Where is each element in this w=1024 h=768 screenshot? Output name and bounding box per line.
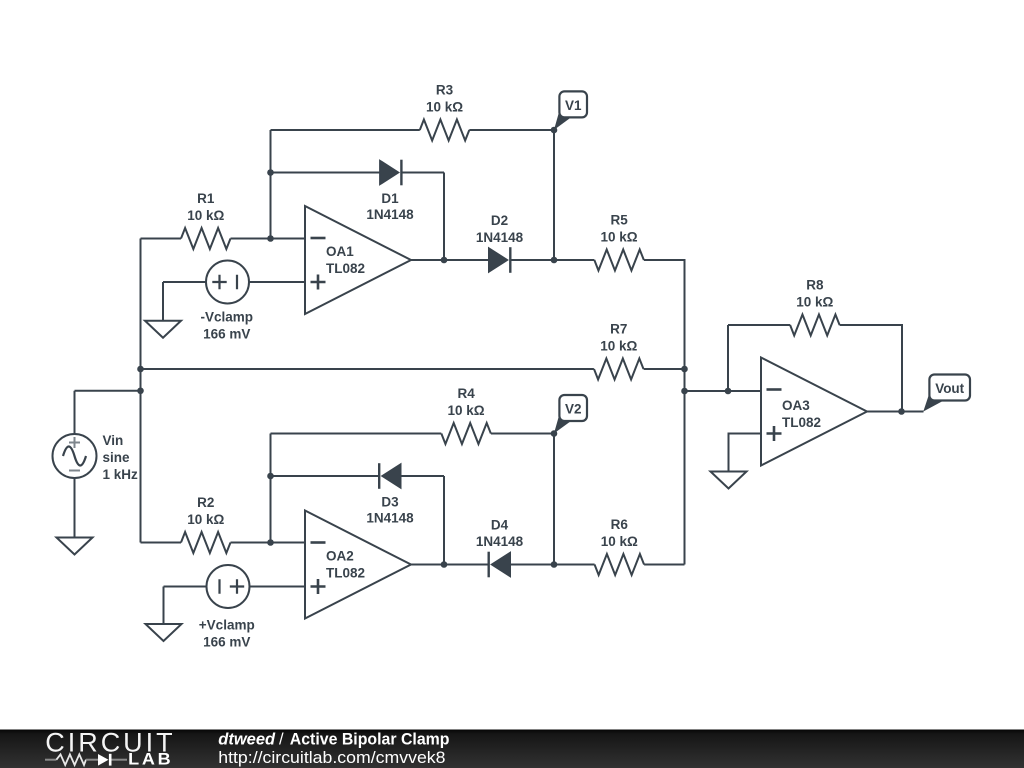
wire D3 anode down to OA2 output [443,476,445,565]
wire R8 left vertical [727,325,729,391]
ground Vin [57,538,93,555]
resistor R5 [594,250,644,271]
resistor R6 [595,554,645,575]
wire OA2 output row [411,564,489,566]
svg-text:R4: R4 [457,386,475,401]
node D3 cathode junction [267,473,274,480]
svg-text:D3: D3 [381,495,399,510]
voltage source Vin stem top [74,391,76,434]
ground OA3 [711,472,747,489]
label -Vclamp 166 mV [200,310,253,342]
label OA3 TL082 [782,398,821,430]
wire D2 cathode to R5 [510,259,594,261]
wire feedback bus vertical x270 (top) [270,130,272,239]
wire -Vclamp to OA1 non-inverting input [249,281,305,283]
svg-text:Vout: Vout [935,381,964,396]
wire D1 cathode lead [401,172,444,174]
footer bar [0,730,1024,768]
svg-text:R1: R1 [197,191,215,206]
svg-text:10 kΩ: 10 kΩ [601,230,638,245]
node D2 / V1 tap junction [551,257,558,264]
svg-text:D1: D1 [381,191,399,206]
node V1 junction [551,127,558,134]
svg-text:/: / [279,730,284,748]
wire +Vclamp left lead [164,586,207,588]
node V2 junction [551,430,558,437]
op-amp OA2 inverting input mark [311,541,326,544]
label D2 1N4148 [476,213,524,245]
resistor R7 [594,359,644,380]
logo resistor-diode squiggle [45,754,127,766]
svg-text:R7: R7 [610,322,627,337]
wire R4 right lead to node V2 [491,433,554,435]
label R2 10 kOhm [187,495,224,527]
node D1 anode junction [267,169,274,176]
svg-text:R5: R5 [610,213,628,228]
svg-text:10 kΩ: 10 kΩ [600,339,637,354]
label R1 10 kOhm [187,191,224,223]
label OA2 TL082 [326,549,365,581]
node OA2 output / D3 feedback junction [441,561,448,568]
label R8 10 kOhm [796,278,833,310]
label R7 10 kOhm [600,322,637,354]
svg-text:1N4148: 1N4148 [366,511,414,526]
diode D4 1N4148 [489,552,511,578]
voltage source Vin sine 1 kHz [53,434,97,478]
label R4 10 kOhm [448,386,485,418]
wire summing bus to OA3 inverting input [685,390,762,392]
wire R1 to OA1 inverting input [231,238,306,240]
wire OA3 non-inverting input to ground [729,434,762,472]
svg-text:Vin: Vin [103,433,124,448]
wire OA1 output row [411,259,489,261]
wire D3 cathode lead (left side) [271,475,380,477]
svg-text:1N4148: 1N4148 [366,207,414,222]
svg-text:LAB: LAB [128,751,173,768]
wire node V1 down to D2 output row [553,130,555,260]
resistor R3 [420,120,470,141]
label R6 10 kOhm [601,517,638,549]
label +Vclamp 166 mV [199,618,255,650]
svg-text:OA2: OA2 [326,549,354,564]
node OA3 output / R8 junction [898,408,905,415]
wire R3 left lead [271,129,420,131]
svg-text:10 kΩ: 10 kΩ [187,512,224,527]
svg-text:sine: sine [103,450,131,465]
label R3 10 kOhm [426,83,463,115]
svg-text:166 mV: 166 mV [203,327,250,342]
diode D2 1N4148 [489,247,511,273]
node OA1 inverting input junction [267,235,274,242]
flag Vout [923,390,945,412]
label R5 10 kOhm [601,213,638,245]
svg-text:R6: R6 [611,517,629,532]
svg-text:V1: V1 [565,98,582,113]
node left bus / R7 junction [137,366,144,373]
wire R7 right lead [644,368,685,370]
svg-text:OA3: OA3 [782,398,810,413]
resistor R4 [441,423,491,444]
label OA1 TL082 [326,244,365,276]
svg-text:10 kΩ: 10 kΩ [601,534,638,549]
op-amp OA2 non-inverting input mark [311,579,326,594]
node R7 / summing bus junction [681,366,688,373]
svg-text:D2: D2 [491,213,508,228]
resistor R8 [790,315,840,336]
wire OA3 output [867,411,924,413]
svg-text:10 kΩ: 10 kΩ [796,295,833,310]
svg-text:R3: R3 [436,83,454,98]
svg-text:1N4148: 1N4148 [476,534,524,549]
svg-text:http://circuitlab.com/cmvvek8: http://circuitlab.com/cmvvek8 [218,748,445,767]
wire D4 anode to R6 [511,564,595,566]
flag V2 [554,410,572,433]
wire R1 left lead [141,238,182,240]
wire R8 right lead and down to OA3 output [840,325,902,412]
op-amp OA3 non-inverting input mark [767,426,782,441]
label D4 1N4148 [476,518,524,550]
resistor R2 [181,532,231,553]
svg-text:R2: R2 [197,495,214,510]
svg-text:10 kΩ: 10 kΩ [448,403,485,418]
op-amp OA1 non-inverting input mark [311,275,326,290]
diode D3 1N4148 [379,463,401,489]
wire Vin top lead to left bus [75,390,141,392]
node summing bus junction [681,388,688,395]
node left bus / Vin junction [137,387,144,394]
wire R4 left lead [271,433,442,435]
op-amp OA2 TL082 [305,511,411,619]
label D3 1N4148 [366,495,414,526]
node OA1 output / D1 feedback junction [441,257,448,264]
label D1 1N4148 [366,191,414,222]
wire feedback bus vertical x270 (bottom) [270,434,272,543]
svg-text:1 kHz: 1 kHz [103,467,139,482]
svg-text:+Vclamp: +Vclamp [199,618,255,633]
ground +Vclamp [163,587,165,625]
svg-text:166 mV: 166 mV [203,635,250,650]
node OA2 inverting input junction [267,539,274,546]
wire -Vclamp left lead [163,281,206,283]
svg-text:OA1: OA1 [326,244,354,259]
wire D1 cathode down to OA1 output [443,173,445,261]
op-amp OA3 inverting input mark [767,388,782,391]
wire R7 left lead [141,368,594,370]
node D4 / V2 tap junction [551,561,558,568]
wire D3 anode lead (right side) [401,475,444,477]
label Vin sine 1 kHz [103,433,139,482]
ground -Vclamp [162,282,164,321]
wire R6 right lead [644,564,684,566]
wire R2 to OA2 inverting input [231,542,306,544]
svg-text:TL082: TL082 [326,261,365,276]
svg-text:10 kΩ: 10 kΩ [426,100,463,115]
svg-text:D4: D4 [491,518,509,533]
voltage source -Vclamp 166 mV [206,261,249,304]
op-amp OA1 inverting input mark [311,237,326,240]
resistor R1 [181,228,231,249]
diode D1 1N4148 [380,160,402,186]
svg-text:R8: R8 [806,278,824,293]
svg-text:1N4148: 1N4148 [476,230,524,245]
wire +Vclamp to OA2 non-inverting input [250,586,306,588]
wire R8 left lead [728,324,790,326]
svg-text:V2: V2 [565,401,582,416]
svg-text:TL082: TL082 [326,566,365,581]
node R8 bottom junction [725,388,732,395]
wire R3 right lead to node V1 [469,129,554,131]
voltage source +Vclamp 166 mV [207,565,250,608]
wire Vin bottom lead [74,478,76,538]
svg-text:10 kΩ: 10 kΩ [187,208,224,223]
wire node V2 down to D4 output row [553,434,555,565]
wire R2 left lead [141,542,182,544]
svg-text:dtweed: dtweed [218,730,276,748]
flag V1 [554,106,572,129]
op-amp OA1 TL082 [305,206,411,314]
wire R5 right lead and down to summing bus [644,260,685,565]
wire left bus vertical [140,239,142,543]
wire D1 anode lead [271,172,380,174]
svg-text:-Vclamp: -Vclamp [200,310,253,325]
op-amp OA3 TL082 [761,358,867,466]
svg-text:TL082: TL082 [782,415,821,430]
svg-text:Active Bipolar Clamp: Active Bipolar Clamp [290,730,450,748]
